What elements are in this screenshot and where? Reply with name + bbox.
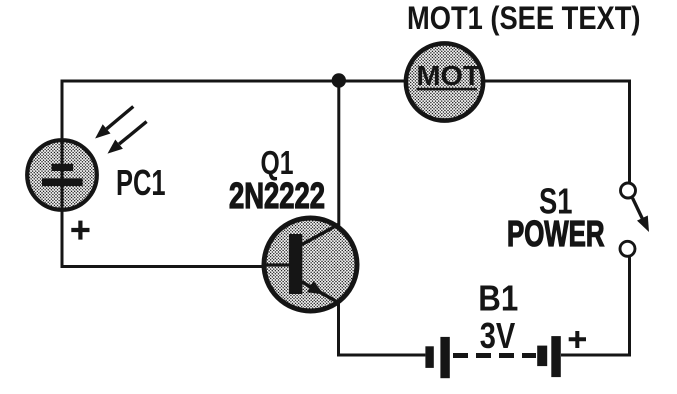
svg-text:MOT: MOT bbox=[417, 60, 481, 91]
svg-text:3V: 3V bbox=[480, 315, 516, 356]
svg-text:B1: B1 bbox=[478, 277, 518, 318]
svg-text:POWER: POWER bbox=[507, 213, 605, 254]
svg-text:2N2222: 2N2222 bbox=[229, 175, 325, 216]
svg-text:MOT1 (SEE TEXT): MOT1 (SEE TEXT) bbox=[407, 0, 641, 36]
svg-text:PC1: PC1 bbox=[116, 162, 166, 203]
